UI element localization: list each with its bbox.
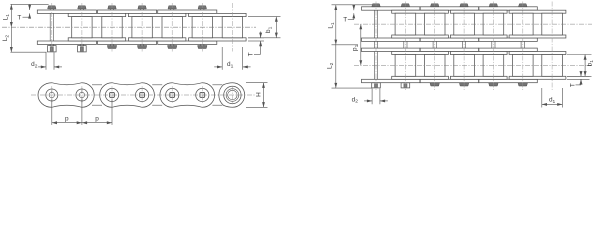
- duplex vertical centerline pin 1: [375, 2, 377, 91]
- duplex outer plate (pins 1-2) row1 bottom: [362, 38, 420, 41]
- outer link plate (pins 1-2) bottom edge view: [37, 41, 96, 44]
- duplex pin 5 top head: [489, 4, 497, 7]
- roller at pin 6 (side view) with bush: [196, 88, 209, 101]
- svg-text:T: T: [570, 83, 577, 87]
- pin 2 bottom cotter head: [78, 46, 87, 52]
- pin 2 top head: [78, 6, 86, 9]
- vertical centerline pin 3: [111, 3, 113, 52]
- vertical centerline pin 1: [51, 3, 53, 52]
- pin 1 end (side view) with center marks: [46, 89, 58, 101]
- roller at pin 3 (top view): [102, 17, 122, 38]
- svg-text:T: T: [248, 52, 255, 56]
- outer link plate (pins 1-2) top edge view: [37, 10, 96, 13]
- duplex vertical centerline pin 4: [463, 2, 465, 91]
- pin 6 bottom rivet head: [198, 46, 207, 49]
- svg-text:T: T: [17, 14, 21, 21]
- dimension L2 duplex: [335, 45, 337, 88]
- dimension T duplex bottom-right: [567, 75, 590, 77]
- duplex roller pin 6 row 2: [513, 55, 534, 77]
- dimension L1: [10, 4, 12, 27]
- end link plate around pin 7 (side view): [219, 83, 245, 108]
- duplex roller pin 7 row 1: [542, 13, 563, 35]
- duplex vertical centerline pin 5: [492, 2, 494, 91]
- svg-text:T: T: [343, 17, 347, 24]
- pin 2 end (side view) with center marks: [76, 89, 88, 101]
- svg-text:p: p: [95, 116, 99, 123]
- horizontal centerline side view: [31, 94, 256, 96]
- duplex pin 3 bottom rivet head: [430, 83, 439, 86]
- duplex pin 6 bottom rivet head: [518, 83, 528, 86]
- duplex pin 4 side lines: [461, 7, 463, 83]
- duplex pin 3 side lines: [432, 7, 434, 83]
- inner link plate (pins 6-7) bottom edge view: [189, 38, 247, 41]
- vertical centerline roller 2 side view: [81, 86, 83, 104]
- duplex pin 5 side lines: [491, 7, 493, 83]
- svg-text:p: p: [65, 116, 69, 123]
- pin 4 side lines (top view): [140, 9, 142, 46]
- inner link plate (pins 4-5) bottom edge view: [128, 38, 186, 41]
- duplex inner plate (pins 2-3) row2 top: [392, 52, 449, 55]
- duplex pin 6 side lines: [520, 7, 522, 83]
- dimension T bottom-right (plate thickness): [248, 37, 264, 39]
- dimension d2 duplex: [371, 89, 373, 105]
- pin 3 bottom rivet head: [107, 46, 116, 49]
- inner plate edge at link junction: [212, 84, 222, 86]
- duplex pin 4 top head: [460, 4, 468, 7]
- pin 1 top head: [48, 6, 56, 9]
- dimension p1 (transverse pitch): [360, 24, 362, 65]
- link plate profile (pins 1-2) side view: [38, 83, 94, 108]
- link plate profile (pins 3-4) side view: [100, 83, 155, 108]
- roller at pin 5 (side view) with bush: [166, 88, 179, 101]
- dimension L1 duplex: [335, 5, 337, 45]
- duplex roller pin 2 row 2: [395, 55, 416, 77]
- link plate profile (pins 5-6) side view: [160, 83, 215, 108]
- vertical centerline roller 4 side view: [141, 86, 143, 104]
- duplex roller pin 5 row 1: [483, 13, 504, 35]
- duplex roller pin 5 row 2: [483, 55, 504, 77]
- duplex vertical centerline pin 3: [434, 2, 436, 91]
- duplex outer plate (pins 5-6) row1 bottom: [479, 38, 537, 41]
- pin 3 side lines (top view): [109, 9, 111, 46]
- pin 1 bottom cotter head: [48, 46, 57, 52]
- duplex row 2 centerline: [354, 64, 592, 66]
- duplex inner plate (pins 6-7) row2 bottom: [509, 76, 566, 79]
- roller at pin 7 (top view): [222, 17, 242, 38]
- outer link plate (pins 3-4) bottom edge view: [98, 41, 157, 44]
- dimension b1 duplex: [567, 54, 592, 56]
- pin 5 side lines (top view): [170, 9, 172, 46]
- duplex row 1 centerline: [354, 23, 592, 25]
- duplex pin 4 bottom rivet head: [459, 83, 468, 86]
- duplex roller pin 4 row 1: [454, 13, 475, 35]
- roller at pin 3 (side view) with bush: [105, 88, 118, 101]
- dimension p line: [52, 122, 112, 124]
- duplex pin 2 top head: [401, 4, 409, 7]
- pin 3 top head: [108, 6, 116, 9]
- dimension L2: [10, 27, 12, 52]
- duplex inner plate (pins 6-7) row1 bottom: [509, 35, 566, 38]
- inner link plate (pins 4-5) top edge view: [128, 13, 186, 16]
- pin 1 side lines (top view): [49, 9, 51, 46]
- duplex outer plate (pins 1-2) row2 top: [362, 48, 420, 51]
- inner link plate (pins 6-7) top edge view: [189, 13, 247, 16]
- duplex outer plate (pins 3-4) row2 top: [420, 48, 478, 51]
- duplex inner plate (pins 6-7) row2 top: [509, 52, 566, 55]
- horizontal centerline left top view: [2, 26, 256, 28]
- roller at pin 2 (top view): [72, 17, 92, 38]
- pin 5 bottom rivet head: [168, 46, 177, 49]
- duplex outer plate (pins 3-4) row1 bottom: [420, 38, 478, 41]
- duplex roller pin 7 row 2: [542, 55, 563, 77]
- duplex roller pin 4 row 2: [454, 55, 475, 77]
- duplex inner plate (pins 4-5) row1 bottom: [450, 35, 507, 38]
- dimension b1 (inner width): [248, 16, 281, 18]
- duplex roller pin 2 row 1: [395, 13, 416, 35]
- roller at pin 4 (side view) with bush: [136, 88, 149, 101]
- duplex inner plate (pins 4-5) row2 bottom: [450, 76, 507, 79]
- duplex inner plate (pins 4-5) row2 top: [450, 52, 507, 55]
- duplex roller pin 6 row 1: [513, 13, 534, 35]
- dimension p (pitch) extension lines: [51, 100, 53, 125]
- vertical centerline roller 5 side view: [171, 86, 173, 104]
- duplex outer plate (pins 1-2) row2 bottom: [362, 79, 420, 82]
- roller at pin 6 (top view): [192, 17, 212, 38]
- vertical centerline pin 5: [171, 3, 173, 52]
- vertical centerline pin 6: [201, 3, 203, 52]
- inner link plate (pins 2-3) bottom edge view: [68, 38, 126, 41]
- dimension d1 duplex: [541, 88, 543, 108]
- pin 4 top head: [138, 6, 146, 9]
- duplex pin 1 bottom cotter head: [372, 83, 381, 88]
- vertical centerline roller 3 side view: [111, 86, 113, 104]
- inner link plate (pins 2-3) top edge view: [68, 13, 126, 16]
- duplex extension line pin top: [332, 4, 373, 6]
- open roller at pin 7 (side view): [224, 86, 241, 103]
- inner plate edge at link junction: [152, 84, 162, 86]
- duplex outer plate (pins 5-6) row2 bottom: [479, 79, 537, 82]
- pin 4 bottom rivet head: [137, 46, 146, 49]
- duplex vertical centerline pin 2: [404, 2, 406, 91]
- vertical centerline pin 2: [81, 3, 83, 52]
- duplex pin 6 top head: [519, 4, 528, 7]
- dimension d2 (pin diameter): [45, 52, 47, 69]
- duplex roller pin 3 row 2: [424, 55, 445, 77]
- outer link plate (pins 3-4) top edge view: [98, 10, 157, 13]
- duplex pin 5 bottom rivet head: [489, 83, 498, 86]
- duplex vertical centerline pin 6: [522, 2, 524, 91]
- duplex pin 3 top head: [431, 4, 439, 7]
- outer link plate (pins 5-6) bottom edge view: [158, 41, 217, 44]
- duplex inner plate (pins 6-7) row1 top: [509, 10, 566, 13]
- duplex outer plate (pins 5-6) row1 top: [479, 7, 537, 10]
- duplex outer plate (pins 1-2) row1 top: [362, 7, 420, 10]
- vertical centerline pin 4: [141, 3, 143, 52]
- dimension d1 (roller diameter, left): [221, 47, 223, 70]
- pin 6 top head: [198, 6, 206, 9]
- duplex inner plate (pins 4-5) row1 top: [450, 10, 507, 13]
- svg-text:H: H: [255, 92, 262, 97]
- vertical centerline roller 1 side view: [51, 86, 53, 104]
- vertical centerline roller 7 side view: [231, 86, 233, 104]
- roller at pin 4 (top view): [132, 17, 152, 38]
- duplex inner plate (pins 2-3) row1 top: [392, 10, 449, 13]
- duplex pin 2 side lines: [403, 7, 405, 83]
- duplex inner plate (pins 2-3) row1 bottom: [392, 35, 449, 38]
- duplex pin 1 top head: [372, 4, 380, 7]
- roller at pin 5 (top view): [162, 17, 182, 38]
- pin 5 top head: [168, 6, 176, 9]
- duplex pin 1 side lines: [373, 7, 375, 83]
- dimension H (plate height): [246, 82, 268, 84]
- duplex vertical centerline pin 7: [551, 2, 553, 91]
- vertical centerline pin 7: [231, 3, 233, 52]
- duplex outer plate (pins 5-6) row2 top: [479, 48, 537, 51]
- duplex outer plate (pins 3-4) row1 top: [420, 7, 478, 10]
- duplex pin 2 bottom cotter head: [401, 83, 410, 88]
- pin 2 side lines (top view): [79, 9, 81, 46]
- dimension L1 extension line (pin top): [10, 3, 48, 5]
- duplex inner plate (pins 2-3) row2 bottom: [392, 76, 449, 79]
- pin 6 side lines (top view): [200, 9, 202, 46]
- vertical centerline roller 6 side view: [201, 86, 203, 104]
- duplex roller pin 3 row 1: [424, 13, 445, 35]
- outer link plate (pins 5-6) top edge view: [158, 10, 217, 13]
- duplex outer plate (pins 3-4) row2 bottom: [420, 79, 478, 82]
- inner plate edge at link junction: [92, 84, 102, 86]
